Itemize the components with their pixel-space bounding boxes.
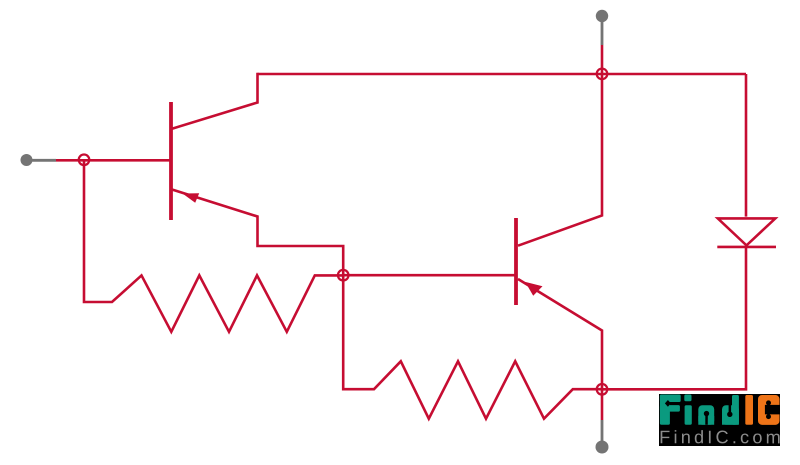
wire N3 to Q2 base: [343, 274, 515, 277]
FindIC logo: [659, 393, 780, 445]
transistor Q1 base bar: [169, 102, 173, 220]
left terminal dot: [21, 154, 33, 166]
logo letter i: [684, 394, 691, 401]
wire top-rail to Q1 collector: [172, 73, 258, 129]
wire R2 branch: N3 down, zigzag, into N4: [343, 274, 602, 419]
left terminal wire (gray): [27, 159, 56, 162]
trace cut in n: [704, 410, 709, 415]
diode D1 cathode bar: [717, 246, 776, 249]
logo letter C: [758, 395, 780, 425]
transistor Q2 base bar: [514, 218, 518, 305]
trace cut in F: [668, 402, 681, 404]
svg-text:FindIC.com: FindIC.com: [659, 427, 780, 446]
wire Q1 emitter to node N3: [172, 190, 343, 277]
logo letter n: [698, 405, 714, 425]
wire bottom terminal stub (red part): [601, 389, 604, 420]
transistor Q2 emitter arrow: [525, 282, 542, 296]
logo letter I: [745, 395, 753, 425]
node N2 junction circle: [597, 69, 608, 80]
transistor Q1 emitter arrow: [183, 193, 200, 203]
wire R1 branch: N1 down, lead, zigzag, into N3: [84, 161, 343, 332]
node N3 junction circle: [338, 270, 349, 281]
wire N2 down to Q2 collector: [518, 74, 602, 246]
top terminal dot: [596, 10, 608, 22]
wire N2 to diode anode: [745, 74, 748, 217]
bottom terminal wire (gray): [601, 420, 604, 443]
wire top rail: [258, 73, 747, 76]
node N1 junction circle: [79, 155, 90, 166]
logo letter d: [722, 405, 739, 425]
top terminal wire (gray): [601, 17, 604, 45]
logo letter F: [660, 394, 670, 424]
node N4 junction circle: [597, 384, 608, 395]
wire top terminal stub (red part): [601, 45, 604, 74]
wire Q1 base: [56, 159, 170, 162]
trace cut in d: [727, 411, 732, 416]
diode D1 triangle: [718, 218, 776, 245]
bottom terminal dot: [596, 441, 609, 454]
wire diode cathode to N4: [602, 247, 746, 389]
notch cut in C: [765, 404, 780, 413]
wire Q2 emitter down to N4: [518, 279, 602, 389]
